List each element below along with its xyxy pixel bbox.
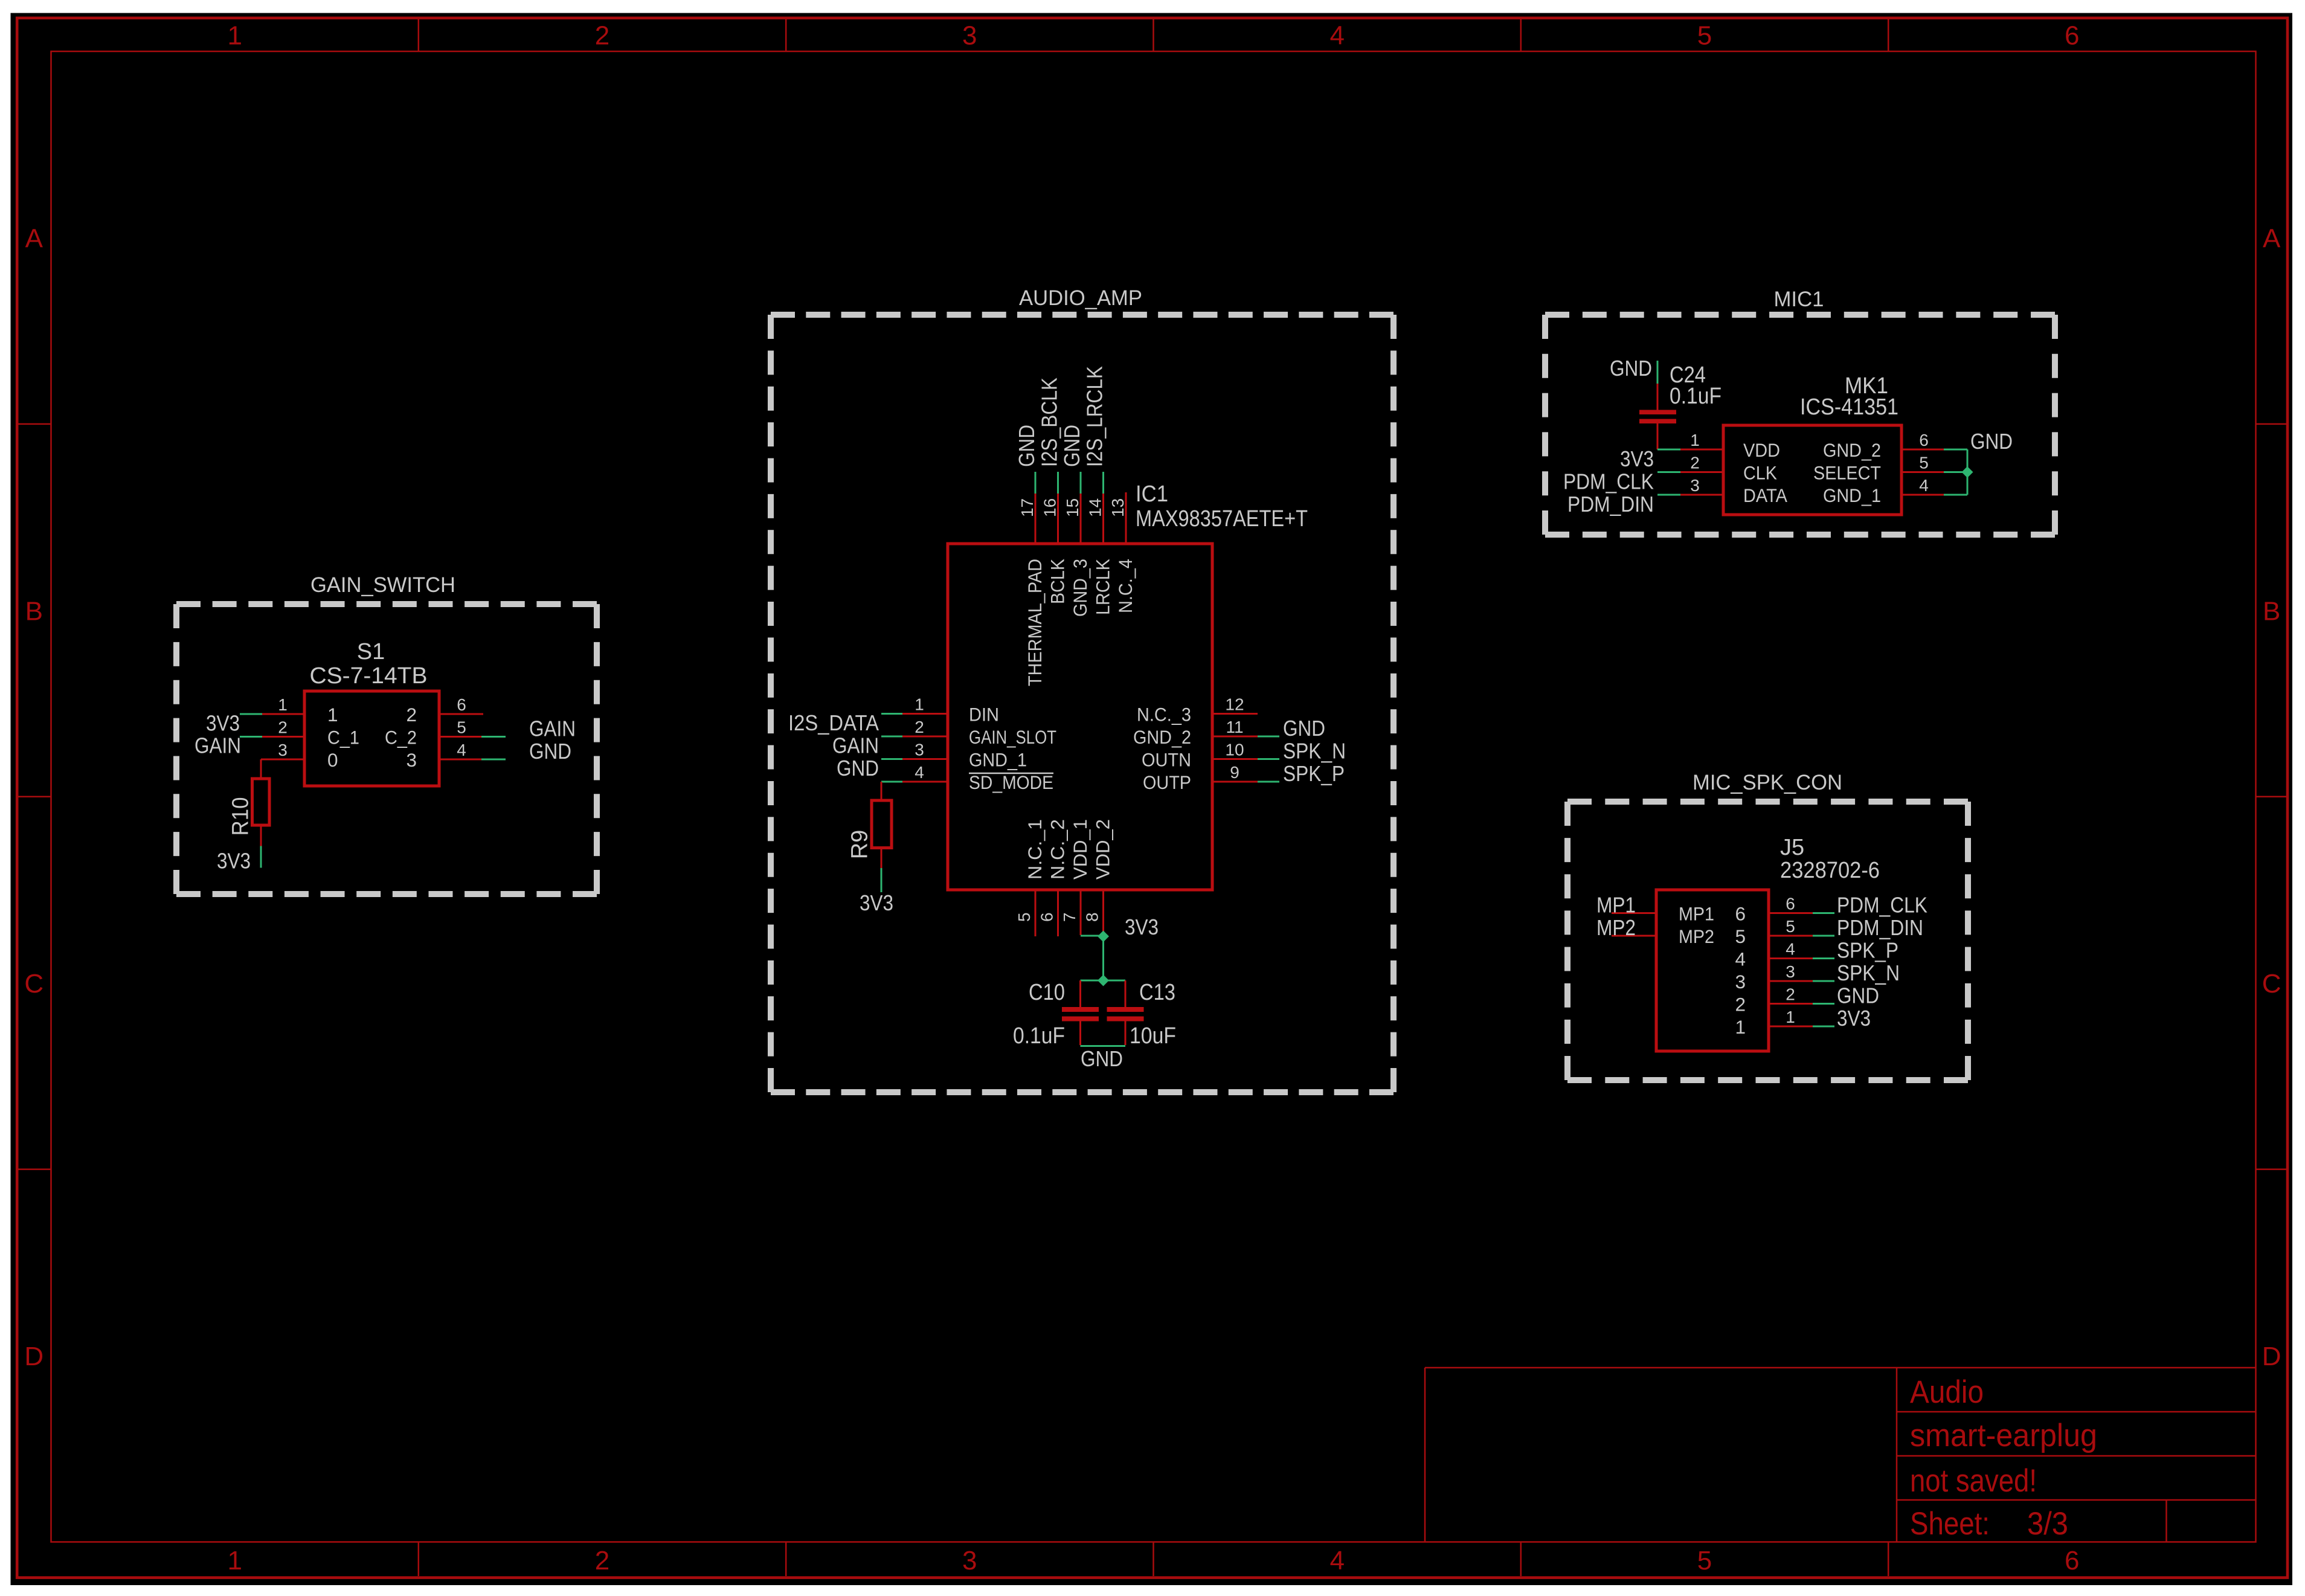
svg-text:10: 10	[1225, 741, 1244, 759]
svg-text:PDM_DIN: PDM_DIN	[1567, 492, 1654, 516]
svg-text:12: 12	[1225, 695, 1244, 714]
svg-text:6: 6	[1735, 903, 1746, 925]
svg-text:SPK_P: SPK_P	[1837, 938, 1898, 963]
svg-text:2: 2	[278, 718, 288, 737]
svg-text:5: 5	[1697, 21, 1712, 51]
svg-text:3: 3	[1786, 962, 1795, 981]
svg-text:VDD_1: VDD_1	[1069, 819, 1091, 880]
svg-text:4: 4	[915, 763, 924, 782]
svg-text:MP2: MP2	[1679, 925, 1714, 947]
svg-text:MP1: MP1	[1679, 903, 1714, 925]
svg-text:Audio: Audio	[1910, 1374, 1984, 1410]
svg-text:A: A	[25, 224, 43, 253]
svg-text:GND: GND	[1837, 983, 1879, 1008]
svg-text:GND_2: GND_2	[1823, 439, 1881, 461]
svg-text:VDD_2: VDD_2	[1092, 819, 1114, 880]
svg-text:8: 8	[1083, 912, 1102, 922]
svg-text:N.C._1: N.C._1	[1024, 819, 1046, 880]
svg-text:N.C._4: N.C._4	[1114, 559, 1136, 613]
svg-text:3: 3	[278, 741, 288, 759]
svg-text:1: 1	[327, 704, 338, 726]
svg-text:MP2: MP2	[1596, 915, 1636, 940]
svg-text:3V3: 3V3	[1620, 446, 1654, 471]
svg-text:CS-7-14TB: CS-7-14TB	[310, 663, 428, 689]
svg-text:GND: GND	[1283, 716, 1325, 741]
svg-text:PDM_CLK: PDM_CLK	[1563, 469, 1654, 494]
svg-text:1: 1	[1690, 431, 1700, 449]
svg-text:GND_1: GND_1	[1823, 484, 1881, 506]
svg-text:10uF: 10uF	[1130, 1023, 1176, 1049]
svg-text:LRCLK: LRCLK	[1092, 559, 1114, 615]
svg-text:C_2: C_2	[385, 727, 417, 748]
svg-text:MP1: MP1	[1596, 893, 1636, 918]
svg-text:D: D	[2262, 1342, 2281, 1371]
svg-text:J5: J5	[1780, 835, 1804, 860]
svg-text:C_1: C_1	[327, 727, 359, 748]
svg-text:SELECT: SELECT	[1813, 462, 1881, 484]
svg-text:6: 6	[1919, 431, 1929, 449]
svg-text:6: 6	[2065, 21, 2079, 51]
svg-text:3V3: 3V3	[860, 890, 893, 915]
svg-text:3/3: 3/3	[2027, 1506, 2068, 1542]
svg-text:MIC_SPK_CON: MIC_SPK_CON	[1693, 770, 1842, 794]
svg-text:3V3: 3V3	[1837, 1006, 1871, 1031]
svg-text:6: 6	[2065, 1546, 2079, 1575]
svg-text:PDM_DIN: PDM_DIN	[1837, 915, 1923, 940]
svg-text:1: 1	[1786, 1008, 1795, 1026]
svg-text:GAIN: GAIN	[832, 733, 879, 758]
svg-text:2: 2	[406, 704, 417, 726]
svg-text:3: 3	[1735, 971, 1746, 993]
svg-text:2: 2	[915, 718, 924, 736]
svg-text:THERMAL_PAD: THERMAL_PAD	[1024, 559, 1046, 686]
svg-text:16: 16	[1041, 498, 1059, 517]
svg-text:C13: C13	[1139, 980, 1175, 1005]
svg-text:GND_2: GND_2	[1133, 726, 1191, 748]
svg-text:AUDIO_AMP: AUDIO_AMP	[1019, 286, 1142, 310]
svg-text:3: 3	[962, 21, 977, 51]
svg-text:4: 4	[457, 741, 466, 759]
svg-text:3V3: 3V3	[217, 849, 251, 874]
svg-text:6: 6	[457, 695, 466, 714]
svg-text:1: 1	[278, 695, 288, 714]
svg-text:2: 2	[595, 21, 609, 51]
svg-text:3: 3	[406, 749, 417, 771]
svg-text:C: C	[24, 969, 43, 999]
svg-text:VDD: VDD	[1743, 439, 1780, 461]
svg-text:C: C	[2262, 969, 2281, 999]
svg-text:0.1uF: 0.1uF	[1013, 1023, 1065, 1049]
svg-text:GND: GND	[1014, 425, 1039, 467]
svg-text:not saved!: not saved!	[1910, 1463, 2037, 1499]
svg-text:OUTP: OUTP	[1143, 771, 1191, 793]
svg-text:I2S_DATA: I2S_DATA	[788, 710, 879, 735]
svg-text:I2S_BCLK: I2S_BCLK	[1037, 378, 1062, 467]
svg-text:5: 5	[1015, 912, 1034, 922]
svg-text:D: D	[24, 1342, 43, 1371]
svg-text:R9: R9	[847, 830, 873, 860]
svg-text:15: 15	[1063, 498, 1082, 517]
svg-text:GND: GND	[1970, 429, 2013, 454]
svg-text:3V3: 3V3	[206, 711, 240, 736]
svg-text:11: 11	[1226, 718, 1243, 736]
svg-text:3: 3	[915, 741, 924, 759]
svg-text:GAIN: GAIN	[529, 716, 576, 741]
svg-text:I2S_LRCLK: I2S_LRCLK	[1082, 366, 1107, 467]
svg-text:SPK_N: SPK_N	[1837, 960, 1900, 985]
svg-text:Sheet:: Sheet:	[1910, 1506, 1990, 1542]
svg-text:4: 4	[1329, 1546, 1344, 1575]
svg-text:4: 4	[1786, 940, 1795, 959]
svg-text:3: 3	[1690, 476, 1700, 495]
svg-text:MIC1: MIC1	[1774, 287, 1824, 311]
svg-text:B: B	[25, 596, 43, 626]
svg-text:5: 5	[1697, 1546, 1712, 1575]
svg-text:GND_1: GND_1	[969, 749, 1027, 771]
svg-text:GAIN_SLOT: GAIN_SLOT	[969, 726, 1056, 748]
svg-text:IC1: IC1	[1136, 481, 1168, 507]
svg-text:ICS-41351: ICS-41351	[1800, 394, 1898, 420]
svg-text:17: 17	[1018, 498, 1037, 517]
svg-text:N.C._3: N.C._3	[1137, 704, 1191, 726]
svg-text:0.1uF: 0.1uF	[1670, 384, 1722, 409]
svg-text:GAIN_SWITCH: GAIN_SWITCH	[310, 573, 455, 597]
svg-text:BCLK: BCLK	[1047, 559, 1069, 604]
svg-text:2: 2	[595, 1546, 609, 1575]
svg-text:7: 7	[1060, 912, 1079, 922]
svg-text:R10: R10	[228, 797, 254, 836]
svg-text:5: 5	[1786, 917, 1795, 936]
svg-text:4: 4	[1735, 948, 1746, 970]
svg-text:CLK: CLK	[1743, 462, 1777, 484]
svg-text:1: 1	[227, 1546, 242, 1575]
svg-text:SD_MODE: SD_MODE	[969, 771, 1053, 793]
svg-text:13: 13	[1108, 498, 1127, 517]
svg-text:5: 5	[1735, 925, 1746, 947]
svg-text:2: 2	[1786, 985, 1795, 1004]
svg-text:GND: GND	[1610, 356, 1652, 381]
svg-text:B: B	[2263, 596, 2280, 626]
svg-text:GND: GND	[1081, 1046, 1123, 1071]
svg-text:9: 9	[1230, 763, 1239, 782]
svg-text:6: 6	[1786, 895, 1795, 913]
svg-text:PDM_CLK: PDM_CLK	[1837, 893, 1927, 918]
svg-text:3: 3	[962, 1546, 977, 1575]
svg-text:2: 2	[1735, 994, 1746, 1015]
svg-text:GND: GND	[837, 756, 879, 780]
svg-text:MAX98357AETE+T: MAX98357AETE+T	[1136, 506, 1308, 532]
svg-text:1: 1	[1735, 1016, 1746, 1038]
svg-text:4: 4	[1329, 21, 1344, 51]
svg-text:2: 2	[1690, 454, 1700, 472]
svg-text:S1: S1	[357, 639, 385, 664]
svg-text:14: 14	[1086, 498, 1105, 517]
svg-text:0: 0	[327, 749, 338, 771]
svg-text:C10: C10	[1029, 980, 1065, 1005]
svg-text:smart-earplug: smart-earplug	[1910, 1418, 2097, 1453]
svg-text:3V3: 3V3	[1125, 915, 1159, 939]
svg-text:5: 5	[457, 718, 466, 737]
svg-text:A: A	[2263, 224, 2281, 253]
svg-text:6: 6	[1038, 912, 1056, 922]
svg-text:OUTN: OUTN	[1142, 749, 1191, 771]
svg-text:SPK_P: SPK_P	[1283, 761, 1345, 786]
svg-text:4: 4	[1919, 476, 1929, 495]
svg-text:1: 1	[915, 695, 924, 714]
svg-text:DATA: DATA	[1743, 484, 1787, 506]
svg-text:DIN: DIN	[969, 704, 999, 726]
svg-text:SPK_N: SPK_N	[1283, 739, 1346, 764]
svg-text:5: 5	[1919, 454, 1929, 472]
svg-text:N.C._2: N.C._2	[1047, 819, 1069, 880]
svg-text:GND: GND	[529, 739, 571, 764]
svg-text:GND_3: GND_3	[1069, 559, 1091, 617]
svg-text:1: 1	[227, 21, 242, 51]
svg-text:GND: GND	[1059, 425, 1084, 467]
svg-text:2328702-6: 2328702-6	[1780, 858, 1880, 883]
svg-text:GAIN: GAIN	[194, 733, 241, 758]
